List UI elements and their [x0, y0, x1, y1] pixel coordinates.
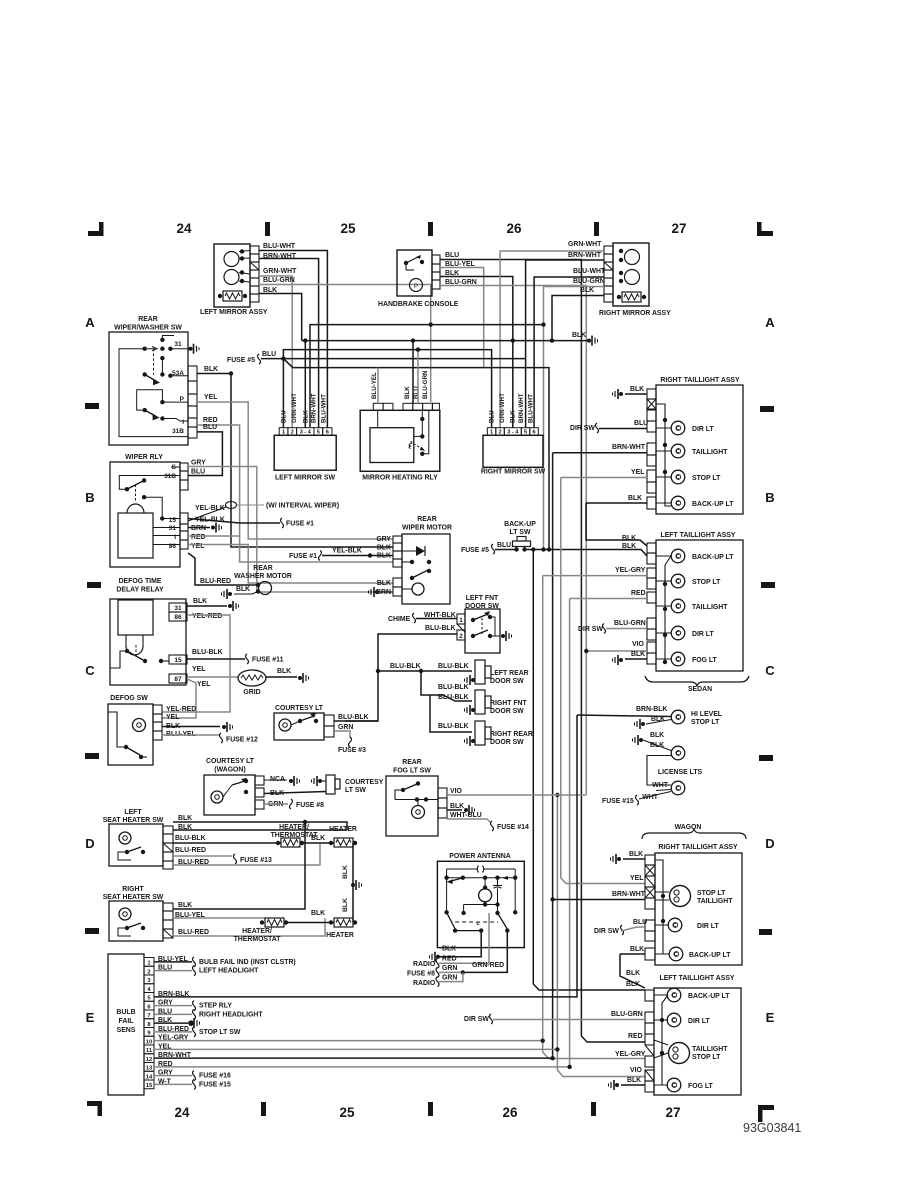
svg-text:93G03841: 93G03841 [743, 1121, 801, 1135]
polarity slash right mirror [604, 262, 613, 270]
svg-text:12: 12 [146, 1057, 152, 1063]
svg-text:BLK: BLK [650, 732, 664, 739]
ground G17 wagon left [615, 1083, 619, 1087]
ground G18 heater mid [351, 883, 355, 887]
wire BRN rear wiper motor ground [380, 591, 393, 593]
svg-text:BLU-BLK: BLU-BLK [438, 694, 469, 701]
svg-text:BLK: BLK [442, 946, 456, 953]
svg-text:WHT-BLU: WHT-BLU [450, 812, 482, 819]
svg-text:GRY: GRY [376, 536, 391, 543]
wiper relay coil [118, 513, 153, 558]
svg-text:LEFT MIRROR ASSY: LEFT MIRROR ASSY [200, 309, 268, 316]
svg-text:BLU-GRN: BLU-GRN [263, 277, 295, 284]
wire fuse5 bus y349 to right mirror sw pin1 [283, 350, 491, 428]
wire BLU backup sw [495, 549, 516, 551]
svg-text:TAILLIGHT: TAILLIGHT [697, 898, 733, 905]
svg-text:BLU-BLK: BLU-BLK [192, 649, 223, 656]
interval wiper note wire [237, 504, 265, 506]
svg-text:BLK: BLK [626, 981, 640, 988]
svg-text:BLK: BLK [377, 580, 391, 587]
svg-text:DIR SW: DIR SW [464, 1016, 489, 1023]
crossed cells wagon right [645, 865, 655, 876]
defog sw switch [124, 745, 128, 749]
right mirror sw pin row [487, 428, 496, 436]
svg-text:BLU-BLK: BLU-BLK [175, 835, 206, 842]
svg-text:C: C [85, 663, 95, 678]
bulb fail sensor box [108, 954, 144, 1095]
mirror heating rly coil box [370, 428, 414, 463]
svg-text:BRN-WHT: BRN-WHT [311, 393, 318, 423]
svg-text:FUSE #11: FUSE #11 [252, 657, 284, 664]
ground G5 rear wiper motor [375, 590, 379, 594]
svg-text:REAR: REAR [417, 516, 437, 523]
svg-text:A: A [85, 315, 95, 330]
svg-text:SEAT HEATER SW: SEAT HEATER SW [103, 894, 164, 901]
svg-text:CHIME: CHIME [388, 616, 411, 623]
ground G6 defog [228, 604, 232, 608]
svg-text:10: 10 [146, 1039, 152, 1045]
svg-text:BLK: BLK [311, 835, 325, 842]
svg-text:REAR: REAR [253, 565, 273, 572]
svg-text:BLK: BLK [236, 586, 250, 593]
ground G14 hi level [641, 722, 645, 726]
svg-text:RIGHT FNT: RIGHT FNT [490, 700, 528, 707]
wire YEL down defog sw [162, 679, 196, 718]
frame corner mark bottom-left [87, 1101, 102, 1106]
svg-text:BLU: BLU [489, 410, 496, 423]
frame corner mark top-left [88, 231, 103, 236]
svg-text:27: 27 [665, 1105, 680, 1120]
svg-text:BACK-UP LT: BACK-UP LT [689, 952, 731, 959]
svg-text:WIPER MOTOR: WIPER MOTOR [402, 525, 452, 532]
svg-text:BLK: BLK [629, 851, 643, 858]
svg-text:RED: RED [631, 590, 646, 597]
courtesy connector strip [324, 715, 334, 726]
svg-text:RIGHT REAR: RIGHT REAR [490, 731, 533, 738]
svg-text:STOP LT: STOP LT [691, 719, 720, 726]
power antenna right blade [495, 911, 499, 915]
wire BLK pins 3-4 left mirror sw [304, 341, 306, 428]
courtesy switch [298, 719, 302, 723]
wire fuse5 pin1 left mirror sw [282, 359, 284, 428]
svg-text:53A: 53A [172, 370, 184, 377]
svg-text:LEFT FNT: LEFT FNT [466, 595, 499, 602]
svg-text:FUSE #1: FUSE #1 [286, 521, 314, 528]
svg-text:GRN: GRN [442, 975, 457, 982]
svg-text:FUSE #14: FUSE #14 [497, 824, 529, 831]
svg-text:GRN-WHT: GRN-WHT [568, 241, 602, 248]
svg-text:RED: RED [191, 534, 206, 541]
svg-text:BLU-RED: BLU-RED [175, 847, 206, 854]
frame corner mark top-right [757, 222, 762, 236]
wire BLK wagon right to left [620, 954, 645, 988]
svg-text:BLU-BLK: BLU-BLK [438, 684, 469, 691]
rear wiper motor M [412, 583, 424, 595]
wire BLU bus to mirror heating [417, 350, 419, 404]
svg-text:BLU-WHT: BLU-WHT [573, 268, 606, 275]
svg-text:WHT: WHT [652, 782, 668, 789]
bottom tick 26/27 [591, 1102, 596, 1116]
svg-text:FUSE #8: FUSE #8 [296, 802, 324, 809]
svg-text:BLK: BLK [510, 410, 517, 423]
svg-text:STOP LT: STOP LT [692, 1054, 721, 1061]
left mirror motor terminals [240, 249, 244, 253]
svg-text:(W/ INTERVAL WIPER): (W/ INTERVAL WIPER) [266, 503, 339, 510]
power antenna top switch blade [450, 878, 463, 882]
svg-text:YEL-GRY: YEL-GRY [615, 1051, 646, 1058]
wiper relay connector strip [180, 463, 188, 471]
left mirror sw pin row [279, 428, 288, 436]
rear fog sw switch [401, 788, 405, 792]
handbrake lamp P [410, 279, 423, 292]
heater bottom [334, 918, 353, 927]
left mirror motor M1 [224, 252, 239, 267]
sedan brace [645, 676, 749, 686]
wire internals rear wiper/washer [162, 336, 174, 340]
ground G2 pin31 [189, 347, 193, 351]
svg-text:BLK: BLK [404, 386, 411, 399]
svg-text:DIR LT: DIR LT [688, 1018, 710, 1025]
svg-text:B: B [85, 490, 94, 505]
svg-text:BLU: BLU [497, 542, 511, 549]
svg-text:31: 31 [174, 605, 182, 612]
svg-text:VIO: VIO [450, 788, 463, 795]
svg-text:BLU-WHT: BLU-WHT [321, 394, 328, 423]
wire fuse5 bus y358 right [283, 358, 525, 360]
power antenna top rail [446, 869, 448, 878]
svg-text:14: 14 [146, 1074, 153, 1080]
svg-text:DIR LT: DIR LT [697, 923, 719, 930]
power antenna capacitor right [493, 886, 502, 889]
svg-text:BLU-WHT: BLU-WHT [263, 243, 296, 250]
svg-text:BLU-BLK: BLU-BLK [438, 723, 469, 730]
left taillight sedan connector strip [647, 543, 656, 553]
svg-text:WASHER MOTOR: WASHER MOTOR [234, 573, 292, 580]
svg-text:GRN: GRN [338, 724, 353, 731]
top tick 25/26 [428, 222, 433, 236]
svg-text:BLK: BLK [193, 598, 207, 605]
svg-text:86: 86 [174, 614, 182, 621]
wire BLK sedan right to left taillight [586, 503, 647, 546]
rear fog sw lamp [412, 806, 425, 819]
svg-text:7: 7 [147, 1013, 150, 1019]
svg-text:26: 26 [506, 221, 522, 236]
wire backup sw to backup lights [524, 549, 586, 551]
left edge tick D/E [85, 928, 99, 934]
svg-text:BLK: BLK [342, 865, 349, 879]
ground G8 defog sw [222, 725, 226, 729]
svg-text:DEFOG SW: DEFOG SW [110, 695, 148, 702]
svg-text:31: 31 [169, 525, 177, 532]
handbrake console box [397, 250, 432, 296]
svg-text:BLK: BLK [377, 545, 391, 552]
svg-text:RIGHT MIRROR SW: RIGHT MIRROR SW [481, 469, 546, 476]
svg-text:RED: RED [442, 956, 457, 963]
ground G11 right taillight [619, 392, 623, 396]
svg-text:YEL: YEL [166, 714, 179, 721]
svg-text:P: P [414, 284, 418, 290]
right edge tick B/C [761, 582, 775, 588]
svg-text:27: 27 [671, 221, 686, 236]
svg-text:DIR SW: DIR SW [594, 928, 619, 935]
svg-text:WIPER/WASHER SW: WIPER/WASHER SW [114, 325, 182, 332]
ground G19 power antenna [436, 955, 440, 959]
svg-text:BLU-BLK: BLU-BLK [390, 663, 421, 670]
svg-text:D: D [85, 836, 94, 851]
svg-text:GRN-WHT: GRN-WHT [499, 393, 506, 423]
svg-text:STOP LT SW: STOP LT SW [199, 1029, 241, 1036]
mirror heating rly pin row [373, 403, 383, 410]
svg-text:BLK: BLK [178, 815, 192, 822]
svg-text:25: 25 [339, 1105, 355, 1120]
right edge tick C/D [759, 755, 773, 761]
svg-text:13: 13 [146, 1066, 153, 1072]
ground G12 left taillight [619, 658, 623, 662]
svg-text:BLU-BLK: BLU-BLK [425, 625, 456, 632]
svg-text:BLU-RED: BLU-RED [200, 578, 231, 585]
ground G4 washer motor [228, 592, 232, 596]
svg-text:BLK: BLK [630, 946, 644, 953]
wire fuse5 lower bus y367 [283, 359, 549, 550]
svg-text:FOG LT: FOG LT [692, 657, 718, 664]
ground G1 black bus [587, 339, 591, 343]
ground G20 bulb fail [189, 1021, 193, 1025]
svg-text:YEL-RED: YEL-RED [166, 706, 196, 713]
svg-text:YEL: YEL [192, 666, 205, 673]
right mirror assy box [613, 243, 649, 306]
bundle wire back-up feed to wagon BLK [533, 550, 645, 991]
power antenna right rail [514, 878, 516, 913]
fuse F14 FUSE #14 [491, 821, 494, 831]
svg-text:2: 2 [147, 969, 150, 975]
svg-text:YEL-GRY: YEL-GRY [615, 567, 646, 574]
svg-text:D: D [765, 836, 774, 851]
svg-text:BLU-BLK: BLU-BLK [438, 663, 469, 670]
svg-text:P: P [180, 396, 185, 403]
rear wiper/washer switch internals [160, 338, 164, 342]
courtesy wagon switch [244, 779, 248, 783]
svg-text:TAILLIGHT: TAILLIGHT [692, 449, 728, 456]
left mirror assy connector strip [250, 246, 259, 254]
rear wiper motor switch [410, 560, 414, 564]
svg-text:REAR: REAR [138, 316, 158, 323]
wire BLU-BLK right rear branch [430, 695, 472, 732]
slash left seat heater [163, 843, 173, 852]
right taillight wagon connector strip [645, 855, 655, 865]
polarity slash [250, 262, 259, 270]
ground G16 wagon right [617, 857, 621, 861]
rear wiper motor diode [416, 546, 425, 556]
svg-text:25: 25 [340, 221, 356, 236]
svg-text:LEFT MIRROR SW: LEFT MIRROR SW [275, 475, 336, 482]
svg-text:FUSE #5: FUSE #5 [461, 547, 489, 554]
wiper relay switch [125, 487, 129, 491]
internal line wagon left [662, 995, 668, 1085]
svg-text:I: I [182, 419, 184, 426]
right front door switch [475, 690, 485, 714]
svg-text:BLU-GRN: BLU-GRN [614, 620, 646, 627]
svg-text:GRN: GRN [442, 965, 457, 972]
svg-text:VIO: VIO [630, 1067, 643, 1074]
svg-text:BACK-UP LT: BACK-UP LT [692, 554, 734, 561]
ground G9 left front door sw [501, 634, 505, 638]
svg-text:86: 86 [169, 543, 177, 550]
svg-text:BLK: BLK [450, 803, 464, 810]
svg-text:LT SW: LT SW [345, 787, 366, 794]
right edge tick A/B [760, 406, 774, 412]
svg-text:BLK: BLK [204, 366, 218, 373]
svg-text:11: 11 [146, 1048, 153, 1054]
svg-text:RADIO: RADIO [413, 980, 436, 987]
svg-text:HEATER: HEATER [326, 932, 354, 939]
svg-text:BULB FAIL IND (INST CLSTR): BULB FAIL IND (INST CLSTR) [199, 959, 296, 966]
svg-text:COURTESY LT: COURTESY LT [206, 758, 255, 765]
svg-text:BLK: BLK [303, 410, 310, 423]
top tick 24/25 [265, 222, 270, 236]
right seat heater switch [125, 926, 129, 930]
svg-text:BULB: BULB [116, 1009, 135, 1016]
svg-text:BLU-RED: BLU-RED [178, 929, 209, 936]
internal return line left taillight sedan [665, 556, 671, 662]
defog relay switch [125, 649, 129, 653]
svg-text:BLU-GRN: BLU-GRN [422, 370, 429, 399]
right mirror heater resistor [622, 292, 641, 302]
svg-text:87: 87 [174, 676, 182, 683]
svg-text:BLK: BLK [627, 1077, 641, 1084]
left seat heater lamp [119, 832, 131, 844]
svg-text:FOG LT SW: FOG LT SW [393, 768, 431, 775]
svg-text:DOOR SW: DOOR SW [490, 678, 524, 685]
slash cell wagon left 2 [645, 1070, 654, 1081]
svg-text:FAIL: FAIL [119, 1018, 134, 1025]
internal line wagon right [655, 860, 669, 954]
svg-text:DIR SW: DIR SW [578, 626, 603, 633]
svg-text:BRN-WHT: BRN-WHT [568, 252, 602, 259]
svg-text:BRN-BLK: BRN-BLK [636, 706, 667, 713]
grid element [238, 670, 266, 686]
right mirror assy connector strip [604, 246, 613, 254]
svg-text:HEATER: HEATER [329, 826, 357, 833]
svg-text:BRN: BRN [191, 525, 206, 532]
svg-text:BLU-GRN: BLU-GRN [611, 1011, 643, 1018]
svg-text:YEL-BLK: YEL-BLK [332, 548, 362, 555]
svg-text:TAILLIGHT: TAILLIGHT [692, 604, 728, 611]
svg-text:I: I [174, 534, 176, 541]
svg-text:BLU: BLU [191, 469, 205, 476]
svg-text:SEDAN: SEDAN [688, 686, 712, 693]
svg-text:HANDBRAKE CONSOLE: HANDBRAKE CONSOLE [378, 301, 459, 308]
svg-text:STEP RLY: STEP RLY [199, 1003, 232, 1010]
svg-text:BLU: BLU [634, 420, 648, 427]
svg-text:HEATER/: HEATER/ [242, 928, 272, 935]
left edge tick B/C [87, 582, 101, 588]
power antenna bottom link [479, 928, 483, 932]
svg-text:BACK-UP: BACK-UP [504, 521, 536, 528]
svg-text:S: S [172, 464, 177, 471]
svg-text:SEAT HEATER SW: SEAT HEATER SW [103, 817, 164, 824]
svg-text:15: 15 [169, 517, 177, 524]
svg-text:BLU: BLU [633, 919, 647, 926]
right mirror motor M2 [625, 270, 640, 285]
left seat heater connector strip [163, 826, 173, 834]
svg-text:DOOR SW: DOOR SW [490, 739, 524, 746]
bus wire BLK ground y340 [302, 340, 590, 342]
svg-text:SENS: SENS [117, 1027, 136, 1034]
right edge tick D/E [759, 929, 772, 935]
svg-text:BLK: BLK [572, 332, 586, 339]
svg-text:RED: RED [203, 417, 218, 424]
connector crossed cell [647, 399, 656, 409]
svg-text:FUSE #13: FUSE #13 [240, 857, 272, 864]
defog relay coil [118, 600, 153, 635]
svg-text:BLU: BLU [281, 410, 288, 423]
svg-text:31: 31 [174, 341, 182, 348]
internal return line right taillight sedan [656, 404, 671, 506]
left edge tick A/B [85, 403, 99, 409]
right mirror motor M1 [625, 250, 640, 265]
svg-text:RIGHT TAILLIGHT ASSY: RIGHT TAILLIGHT ASSY [658, 844, 738, 851]
fuse F8 FUSE #8 [290, 799, 293, 809]
svg-text:BLK: BLK [626, 970, 640, 977]
bus wire upper y324 BLU-GRN link [310, 325, 544, 427]
svg-text:POWER ANTENNA: POWER ANTENNA [449, 853, 510, 860]
right rear door switch [475, 721, 485, 745]
right taillight sedan connector strip [647, 389, 656, 399]
svg-text:FUSE #16: FUSE #16 [199, 1073, 231, 1080]
svg-text:BACK-UP LT: BACK-UP LT [688, 993, 730, 1000]
left mirror heater resistor [223, 291, 242, 301]
svg-text:BLU: BLU [413, 386, 420, 399]
svg-text:BRN-WHT: BRN-WHT [612, 444, 646, 451]
power antenna capacitor top [447, 866, 516, 873]
ground G7 grid [298, 676, 302, 680]
svg-text:BLU-BLK: BLU-BLK [338, 714, 369, 721]
bulb fail sensor connector pins [144, 958, 154, 967]
wire BLU-BLK right front branch [421, 671, 472, 701]
svg-text:TAILLIGHT: TAILLIGHT [692, 1046, 728, 1053]
svg-text:STOP LT: STOP LT [692, 475, 721, 482]
svg-text:B: B [765, 490, 774, 505]
mirror heating rly box [360, 410, 440, 471]
bottom tick 24/25 [261, 1102, 266, 1116]
handbrake connector strip [432, 255, 440, 264]
svg-text:BLK: BLK [628, 495, 642, 502]
svg-text:FUSE #15: FUSE #15 [199, 1081, 231, 1088]
left front door sw slash [457, 624, 465, 632]
left edge tick C/D [85, 753, 99, 759]
svg-text:BRN-WHT: BRN-WHT [518, 393, 525, 423]
svg-text:LEFT TAILLIGHT ASSY: LEFT TAILLIGHT ASSY [659, 975, 734, 982]
svg-text:BLU-WHT: BLU-WHT [528, 394, 535, 423]
svg-text:GRID: GRID [243, 689, 260, 696]
svg-text:RIGHT TAILLIGHT ASSY: RIGHT TAILLIGHT ASSY [660, 377, 740, 384]
svg-text:31B: 31B [164, 473, 176, 480]
bulb BACK-UP LT wagon left [654, 994, 668, 996]
svg-text:BACK-UP LT: BACK-UP LT [692, 501, 734, 508]
license lights lower bulb [671, 781, 685, 795]
left rear door switch [475, 660, 485, 684]
svg-text:RED: RED [628, 1033, 643, 1040]
svg-text:RIGHT MIRROR ASSY: RIGHT MIRROR ASSY [599, 310, 671, 317]
svg-text:FUSE #12: FUSE #12 [226, 737, 258, 744]
wire BLU-BLK courtesy branch [345, 671, 378, 721]
pin 2 left front door sw [457, 630, 465, 640]
svg-text:FUSE #5: FUSE #5 [227, 357, 255, 364]
svg-text:DIR LT: DIR LT [692, 426, 714, 433]
svg-text:C: C [765, 663, 775, 678]
svg-text:STOP LT: STOP LT [697, 890, 726, 897]
top tick 26/27 [594, 222, 599, 236]
